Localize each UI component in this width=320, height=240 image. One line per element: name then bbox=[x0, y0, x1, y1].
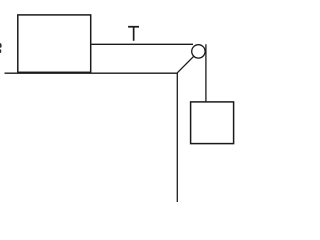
hanging block M2 bbox=[191, 102, 234, 144]
partial letter e at left edge bbox=[0, 43, 2, 48]
pulley bracket diagonal bbox=[177, 56, 193, 72]
table leg bbox=[176, 73, 178, 203]
pulley circle bbox=[192, 45, 205, 58]
rope horizontal segment bbox=[91, 43, 193, 45]
block M1 on table bbox=[18, 15, 91, 72]
table surface bbox=[5, 72, 178, 74]
rope vertical segment bbox=[205, 44, 207, 102]
tension label T bbox=[128, 26, 139, 41]
